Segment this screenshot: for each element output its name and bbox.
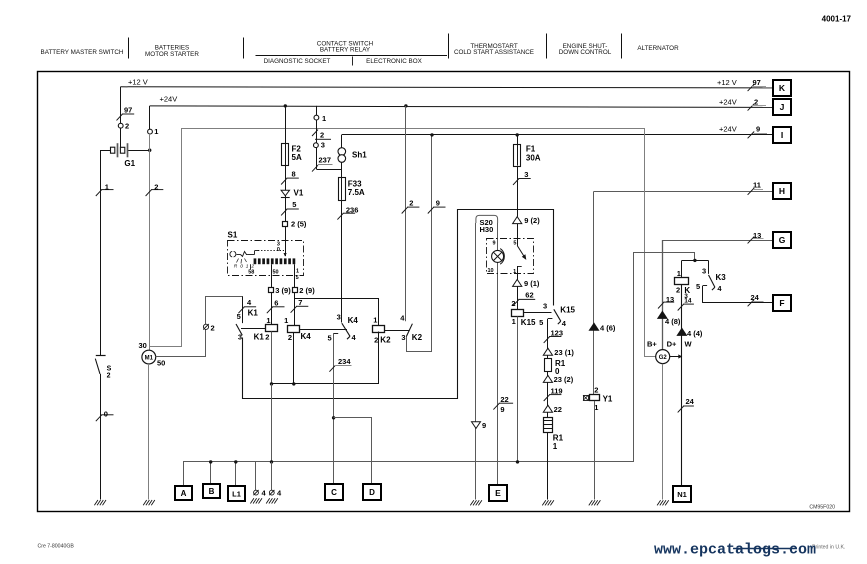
- terminal box L1: [228, 486, 245, 501]
- Y1 valve mark: [584, 396, 589, 401]
- fuse F1 30A: [514, 145, 521, 167]
- wire 9 from K2 contact to I line: [407, 135, 432, 352]
- wire lamp right to E: [497, 223, 499, 485]
- diode V1: [281, 190, 289, 196]
- lamp bracket arc: [500, 249, 504, 265]
- svg-text:Cre 7-80040GB: Cre 7-80040GB: [38, 544, 75, 550]
- slash 97 right: [748, 84, 755, 91]
- svg-text:58: 58: [248, 270, 254, 276]
- wire to Sh1 bottom: [317, 169, 342, 171]
- svg-text:K4: K4: [348, 316, 359, 325]
- svg-text:13: 13: [666, 295, 674, 304]
- svg-text:V1: V1: [294, 189, 304, 198]
- terminal box K: [773, 80, 791, 96]
- junction bus coils wire: [270, 460, 273, 463]
- svg-text:3: 3: [238, 333, 242, 342]
- S1 dotted link: [258, 250, 284, 252]
- svg-text:11: 11: [753, 181, 761, 190]
- svg-text:D: D: [369, 488, 375, 497]
- svg-text:9: 9: [482, 421, 486, 430]
- svg-text:CM95F020: CM95F020: [809, 505, 835, 511]
- svg-text:+12 V: +12 V: [128, 77, 148, 86]
- header separator 1: [128, 38, 130, 59]
- svg-text:2: 2: [265, 333, 269, 342]
- connector 4 (4) filled: [677, 328, 686, 335]
- svg-text:E: E: [495, 488, 501, 498]
- svg-text:Sh1: Sh1: [352, 150, 367, 159]
- svg-text:5: 5: [513, 241, 516, 247]
- wire K15 coil to bus: [517, 317, 519, 462]
- wire 2 down to K2 contact: [405, 106, 407, 321]
- tick under 9: [754, 133, 768, 135]
- slash 0: [96, 415, 102, 421]
- connector square 3 (9): [269, 288, 274, 293]
- S1 contact comb: [254, 258, 257, 264]
- slash 2 mid: [402, 207, 408, 213]
- K3 contact hook: [712, 287, 715, 290]
- K2 contact blade: [406, 324, 412, 337]
- svg-text:H30: H30: [480, 225, 494, 234]
- junction C/D wires: [332, 416, 335, 419]
- terminal circle 1: [148, 129, 153, 134]
- tick under 11: [753, 189, 763, 191]
- rounded top of lamp loop: [476, 215, 498, 223]
- ground below G2: [657, 500, 661, 505]
- header underline: [256, 55, 448, 57]
- svg-text:D+: D+: [667, 339, 677, 348]
- svg-text:2: 2: [125, 121, 129, 130]
- K3 contact blade: [709, 275, 715, 287]
- svg-text:119: 119: [551, 386, 563, 395]
- svg-text:2: 2: [594, 386, 598, 395]
- wire K4 coil 2 down: [293, 333, 295, 384]
- svg-text:C: C: [331, 488, 337, 497]
- header separator 2: [243, 38, 245, 59]
- S20 dash-dot switch box: [487, 239, 534, 274]
- slash 4 on K1 contact: [238, 307, 244, 313]
- ground diam4 second: [266, 498, 270, 503]
- svg-text:B+: B+: [647, 339, 657, 348]
- wire B+ long path: M1 30 terminal to alternator B+: [150, 129, 656, 357]
- slash 11 right: [748, 188, 755, 195]
- header separator 3: [448, 34, 450, 59]
- wire M1 to ground: [148, 364, 150, 500]
- svg-text:24: 24: [686, 397, 695, 406]
- wire into S20: [517, 224, 519, 246]
- K4 contact hook: [347, 336, 350, 339]
- slash 237: [312, 165, 318, 171]
- terminal box A: [175, 486, 192, 500]
- S1 terminal 1 wire: [294, 264, 296, 287]
- terminal circle 2: [118, 123, 123, 128]
- svg-text:2: 2: [288, 333, 292, 342]
- fuse F33 7.5A: [339, 178, 346, 201]
- svg-text:ALTERNATOR: ALTERNATOR: [637, 45, 679, 52]
- wire bus to L1: [235, 462, 237, 486]
- diagram border frame: [38, 72, 850, 512]
- wire Sh1 to F33: [341, 162, 343, 177]
- wire master switch to ground: [100, 374, 102, 500]
- svg-text:K: K: [779, 83, 786, 93]
- svg-text:0: 0: [104, 410, 108, 419]
- svg-text:Y1: Y1: [603, 395, 613, 404]
- terminal box N1: [673, 486, 691, 502]
- slash 7: [291, 306, 297, 312]
- wire 6 to K1 coil: [271, 293, 273, 325]
- K15 contact hook: [558, 321, 561, 324]
- svg-text:22: 22: [554, 405, 562, 414]
- slash 14: [678, 304, 684, 310]
- link K15 coil to contact: [524, 312, 552, 314]
- svg-text:S1: S1: [228, 230, 238, 239]
- wire 13/G to alternator D+: [662, 240, 664, 350]
- svg-text:10: 10: [488, 268, 494, 274]
- terminal box F: [773, 295, 791, 311]
- slash 5: [281, 209, 287, 215]
- wire lamp left to ground: [475, 223, 477, 500]
- junction coils 2: [292, 382, 295, 385]
- svg-text:2: 2: [409, 199, 413, 208]
- slash 97 on +12V drop: [117, 114, 123, 120]
- ground stub diam 4 first: [255, 462, 257, 491]
- svg-text:2: 2: [754, 97, 758, 106]
- ground below master switch: [94, 500, 98, 505]
- wire +12V drop to battery tap: [120, 87, 122, 147]
- ground below lamp wire: [470, 500, 474, 505]
- svg-text:1: 1: [512, 317, 516, 326]
- junction coils 1: [270, 382, 273, 385]
- S1 terminal 58 stub: [250, 264, 252, 269]
- svg-text:1: 1: [266, 316, 270, 325]
- slash 3: [513, 179, 519, 185]
- S20 terminal 1 tick: [517, 266, 522, 268]
- svg-text:4 (8): 4 (8): [665, 317, 681, 326]
- connector 9 (2): [513, 217, 522, 224]
- svg-text:DOWN CONTROL: DOWN CONTROL: [559, 49, 612, 56]
- header separator 5: [621, 34, 623, 59]
- svg-text:ELECTRONIC BOX: ELECTRONIC BOX: [366, 58, 422, 65]
- svg-text:3: 3: [321, 141, 325, 150]
- junction +24V to wire 2: [404, 104, 407, 107]
- wire G2 to ground: [662, 364, 664, 500]
- junction wire 9 on I line: [430, 133, 433, 136]
- svg-text:K2: K2: [380, 335, 391, 344]
- screened-wire mark diam 2: [203, 324, 208, 329]
- svg-text:9 (2): 9 (2): [524, 216, 540, 225]
- svg-text:2: 2: [211, 323, 215, 332]
- svg-text:97: 97: [753, 78, 761, 87]
- svg-text:7: 7: [298, 298, 302, 307]
- svg-text:+24V: +24V: [160, 94, 178, 103]
- svg-text:1: 1: [284, 316, 288, 325]
- relay coil K4: [288, 326, 300, 333]
- svg-text:COLD START ASSISTANCE: COLD START ASSISTANCE: [454, 49, 534, 56]
- svg-text:Printed in U.K.: Printed in U.K.: [812, 545, 845, 551]
- svg-text:7.5A: 7.5A: [348, 188, 365, 197]
- svg-text:K1: K1: [248, 309, 259, 318]
- svg-text:2: 2: [154, 182, 158, 191]
- svg-text:24: 24: [751, 293, 760, 302]
- svg-text:1: 1: [296, 269, 299, 275]
- wire bus to B: [210, 462, 212, 485]
- svg-text:2: 2: [320, 131, 324, 140]
- S20 blade: [517, 246, 524, 256]
- svg-text:5: 5: [696, 282, 700, 291]
- wire K3 top link: [682, 260, 708, 262]
- svg-text:L1: L1: [232, 490, 241, 499]
- ground diam4 first: [250, 498, 254, 503]
- svg-text:5: 5: [296, 275, 299, 281]
- svg-text:62: 62: [525, 291, 533, 300]
- relay coil K15: [512, 310, 524, 317]
- svg-text:3: 3: [524, 170, 528, 179]
- svg-text:97: 97: [124, 106, 132, 115]
- svg-text:2 (5): 2 (5): [291, 220, 307, 229]
- svg-text:2: 2: [676, 286, 680, 295]
- slash 24 on N1 wire: [678, 406, 684, 412]
- slash 22/9 connector: [493, 403, 499, 409]
- wire +12V rail to K: [121, 87, 774, 88]
- connector 23 (2): [543, 375, 552, 382]
- slash 119: [544, 395, 550, 401]
- slash 1: [96, 190, 102, 196]
- svg-text:8: 8: [292, 170, 296, 179]
- svg-text:K2: K2: [412, 333, 423, 342]
- wire to D box: [334, 418, 372, 485]
- S1 radiating dashes: [237, 259, 239, 263]
- junction K3 feed: [693, 259, 696, 262]
- svg-text:+24V: +24V: [719, 97, 737, 106]
- terminal circle 1 mid: [314, 115, 319, 120]
- svg-text:K1: K1: [254, 333, 265, 342]
- svg-text:6: 6: [274, 298, 278, 307]
- wire 2(9) to K2 coil: [295, 299, 379, 326]
- svg-text:H: H: [779, 186, 785, 196]
- slash 9 mid: [428, 207, 434, 213]
- header separator 4: [546, 34, 548, 59]
- terminal box G: [773, 232, 791, 248]
- wire into K1 contact: [242, 296, 244, 323]
- wire 11/H to Y1: [593, 191, 595, 394]
- wire 123 chain: [547, 319, 549, 500]
- glow plug resistor R1: [544, 418, 553, 433]
- S1 key symbol: [230, 251, 232, 257]
- connector square 2 (9): [293, 288, 298, 293]
- wire Y1 to ground: [594, 401, 596, 500]
- svg-text:1: 1: [553, 442, 558, 451]
- slash 2 right: [748, 104, 755, 111]
- svg-text:3 (9): 3 (9): [275, 286, 291, 295]
- svg-text:236: 236: [346, 206, 359, 215]
- terminal box I: [773, 127, 791, 143]
- wire K3 5 to F line: [702, 286, 704, 303]
- svg-text:2: 2: [511, 299, 515, 308]
- svg-text:3: 3: [401, 333, 405, 342]
- svg-text:F1: F1: [526, 144, 536, 153]
- junction +24V to F2: [284, 104, 287, 107]
- svg-text:K15: K15: [521, 318, 536, 327]
- svg-text:MOTOR STARTER: MOTOR STARTER: [145, 51, 199, 58]
- ground below Y1: [589, 500, 593, 505]
- svg-text:BATTERY MASTER SWITCH: BATTERY MASTER SWITCH: [41, 49, 124, 56]
- connector 4 (8) filled: [658, 311, 667, 318]
- svg-text:G1: G1: [124, 159, 135, 168]
- svg-text:30: 30: [139, 341, 147, 350]
- S1 internal link: [254, 251, 256, 255]
- K15 terminal 5 tick: [548, 318, 553, 320]
- ground bus wire: [184, 253, 695, 486]
- svg-text:22: 22: [500, 395, 508, 404]
- wire 2 battery to starter M1: [149, 134, 151, 350]
- starter motor M1: [142, 350, 156, 364]
- K4 terminal 5 tick: [334, 333, 339, 335]
- wire 234 to C and D: [333, 333, 335, 485]
- terminal box J: [773, 99, 791, 115]
- svg-text:N1: N1: [677, 490, 687, 499]
- K1 contact blade: [236, 324, 242, 335]
- resistor R1 upper: [545, 359, 552, 372]
- terminal box B: [203, 484, 220, 498]
- terminal box E: [489, 485, 507, 501]
- wire K3 coil 1: [681, 260, 683, 277]
- wire coils to ground bus: [271, 384, 273, 462]
- wire M1 50 terminal to K1 contact (diam 2): [156, 297, 243, 357]
- wire W: K3 coil 2 to G2 and N1: [681, 285, 683, 486]
- slash 6: [267, 307, 273, 313]
- fuse F2 5A: [282, 144, 289, 166]
- S1 dash-dot box: [228, 241, 304, 276]
- svg-text:B: B: [209, 487, 215, 496]
- svg-text:1: 1: [373, 316, 377, 325]
- K4 contact blade: [342, 323, 350, 336]
- svg-text:9: 9: [756, 124, 760, 133]
- svg-text:G2: G2: [659, 355, 668, 361]
- svg-text:J: J: [780, 102, 785, 112]
- svg-text:5: 5: [292, 200, 296, 209]
- wire F2 chain: [285, 106, 287, 240]
- relay coil K1: [266, 325, 278, 332]
- tick under 2: [752, 105, 766, 107]
- ground below M1: [143, 500, 147, 505]
- wire to K15 coil: [517, 286, 519, 310]
- junction F1 on 9 line: [516, 133, 519, 136]
- svg-text:0: 0: [277, 247, 280, 253]
- svg-text:30A: 30A: [526, 153, 541, 162]
- wire into S1 comb: [285, 229, 287, 256]
- svg-text:5: 5: [539, 318, 543, 327]
- wire 7 to K4 coil: [294, 293, 296, 326]
- wire K3 contact 3 stub: [708, 260, 710, 274]
- link K1 contact to K1 coil: [241, 328, 266, 330]
- slash 2-3 connector: [312, 130, 318, 136]
- svg-text:9: 9: [500, 405, 504, 414]
- ground below R1: [542, 500, 546, 505]
- ground stub diam 4 second: [271, 462, 273, 491]
- junction K15 wire on bus: [516, 460, 519, 463]
- wire 237 chain: [316, 106, 318, 169]
- svg-text:2 (9): 2 (9): [299, 286, 315, 295]
- svg-text:1: 1: [513, 269, 516, 275]
- connector 22: [543, 405, 552, 412]
- wire 11 line to H: [594, 191, 774, 193]
- wire 24 line to F: [703, 302, 774, 304]
- svg-text:123: 123: [551, 328, 564, 337]
- svg-text:23 (1): 23 (1): [554, 348, 574, 357]
- svg-text:1: 1: [154, 127, 158, 136]
- svg-text:237: 237: [319, 156, 332, 165]
- slash 13 right: [748, 237, 755, 244]
- svg-text:9: 9: [436, 199, 440, 208]
- slash 8: [281, 178, 287, 184]
- wire +24V rail to J: [150, 106, 774, 108]
- wire coils common: [272, 332, 379, 384]
- tick under 13: [753, 238, 764, 240]
- svg-text:www.epcatalogs.com: www.epcatalogs.com: [654, 542, 816, 559]
- wire F1 chain top: [517, 135, 519, 217]
- svg-text:5: 5: [328, 334, 332, 343]
- slash 13 on D+ wire: [658, 302, 664, 308]
- wire 13 line to G: [662, 240, 773, 242]
- svg-text:K4: K4: [301, 332, 312, 341]
- svg-text:+24V: +24V: [719, 124, 737, 133]
- wire +24V drop: [149, 106, 151, 129]
- junction battery +24V: [148, 149, 151, 152]
- relay coil K2: [373, 326, 385, 333]
- slash 24 right: [748, 300, 755, 307]
- svg-text:2: 2: [374, 335, 378, 344]
- K15 contact blade: [554, 309, 561, 321]
- link K4 coil to contact: [300, 329, 347, 331]
- wire 1 battery to master switch: [100, 150, 102, 355]
- svg-text:A: A: [181, 489, 187, 498]
- wire K1 contact 3 around thermostart loop to K15 contact 3: [243, 210, 554, 399]
- svg-text:50: 50: [157, 358, 165, 367]
- svg-text:4 (4): 4 (4): [687, 329, 703, 338]
- svg-text:9: 9: [493, 241, 496, 247]
- connector 9 (1): [513, 279, 522, 286]
- svg-text:K15: K15: [560, 305, 575, 314]
- svg-text:BATTERY RELAY: BATTERY RELAY: [320, 46, 371, 53]
- svg-text:+12 V: +12 V: [717, 78, 737, 87]
- svg-text:5: 5: [237, 312, 241, 321]
- svg-text:K3: K3: [716, 273, 727, 282]
- svg-text:4 (6): 4 (6): [600, 323, 616, 332]
- slash 2: [146, 190, 152, 196]
- svg-text:4001-17: 4001-17: [822, 14, 852, 23]
- wire 236 to K4 contact: [341, 200, 343, 323]
- connector 23 (1): [543, 348, 552, 355]
- svg-text:1: 1: [322, 114, 326, 123]
- wire G2 W terminal: [670, 356, 682, 358]
- svg-text:50: 50: [273, 270, 279, 276]
- wire 9 line to I: [342, 134, 774, 136]
- connector square 2 (5): [283, 222, 288, 227]
- terminal box H: [773, 183, 791, 199]
- svg-text:1: 1: [105, 182, 109, 191]
- svg-text:R 0 1 2: R 0 1 2: [234, 263, 255, 269]
- lamp H30: [492, 250, 504, 262]
- connector 4 (6) filled: [589, 323, 598, 330]
- S1 terminal 50 wire: [271, 264, 273, 287]
- svg-text:W: W: [685, 339, 693, 348]
- svg-text:DIAGNOSTIC SOCKET: DIAGNOSTIC SOCKET: [264, 58, 331, 65]
- connector triangle 9 down: [472, 422, 481, 429]
- svg-text:23 (2): 23 (2): [554, 375, 574, 384]
- svg-text:G: G: [779, 235, 786, 245]
- battery master switch S2: [96, 355, 106, 357]
- wire K1 coil 2 down: [271, 332, 273, 384]
- svg-text:S: S: [107, 365, 112, 372]
